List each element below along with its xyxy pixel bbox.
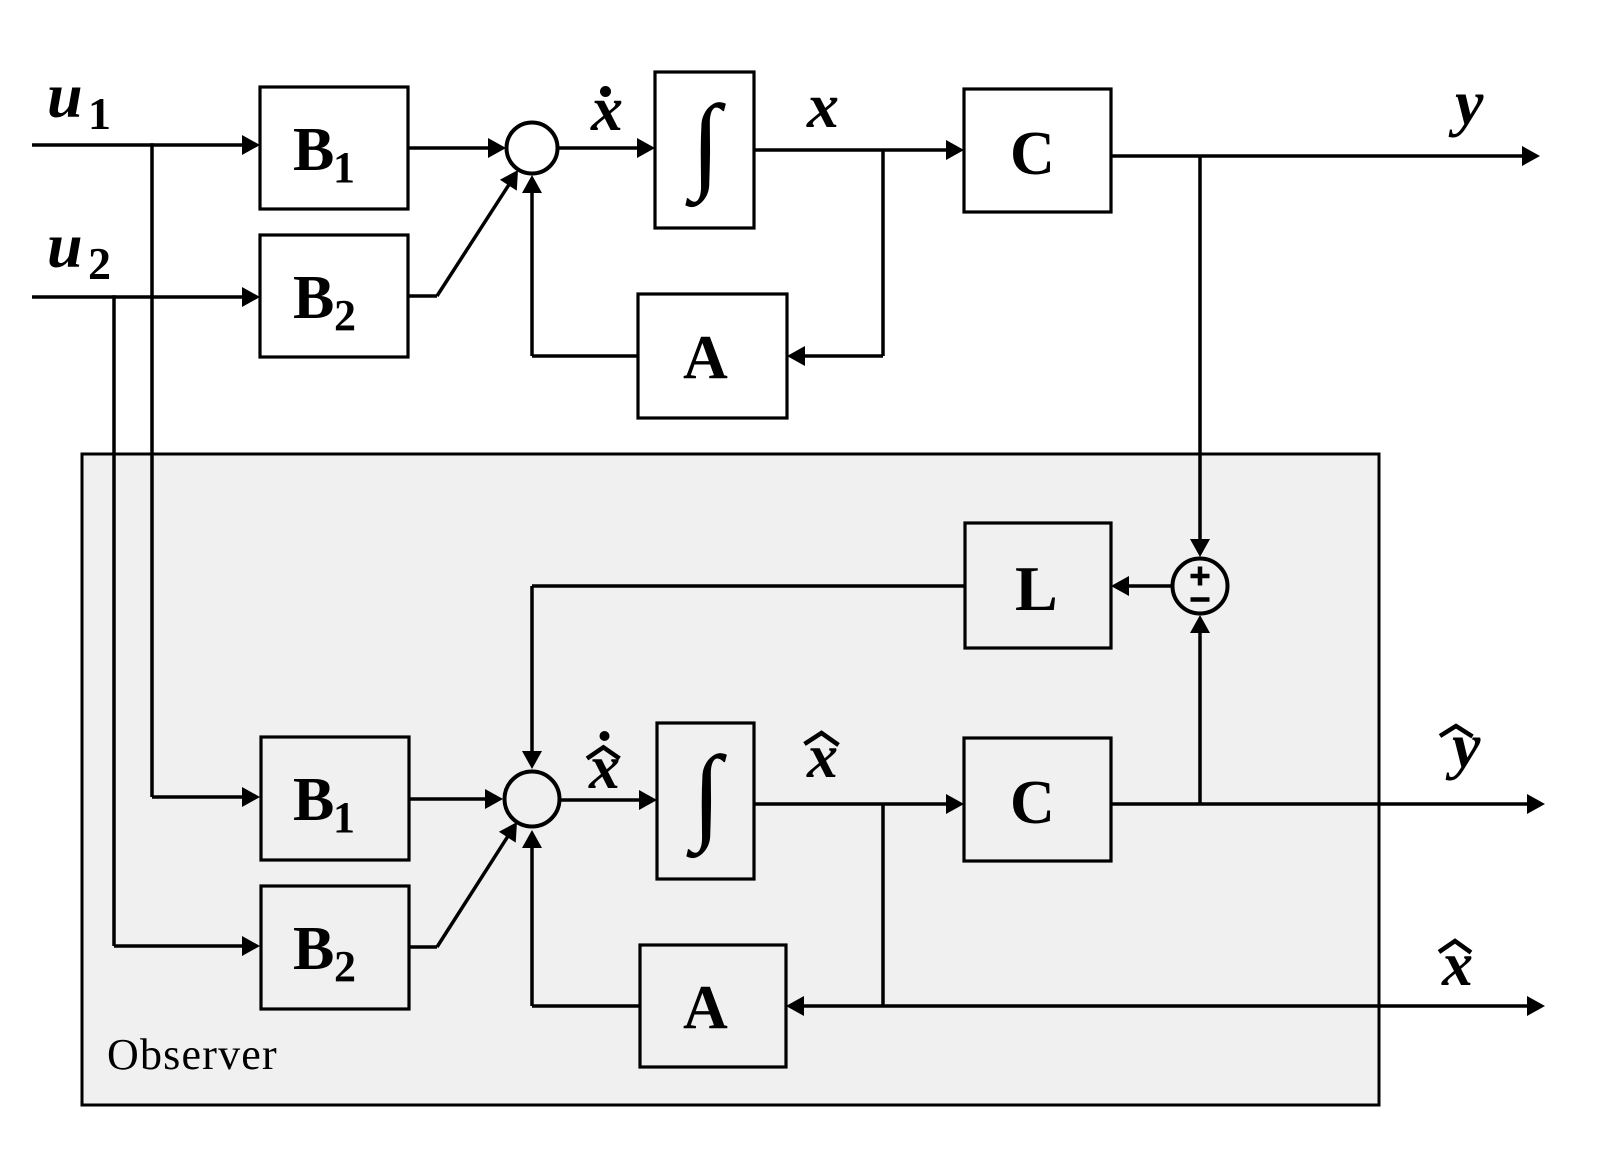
wire y branch down to +- junction [1190, 156, 1210, 557]
wire PM to L [1111, 576, 1171, 596]
svg-text:2: 2 [334, 942, 356, 991]
node u1 label [47, 60, 111, 139]
svg-text:∫: ∫ [686, 736, 727, 859]
svg-text:u: u [47, 210, 83, 281]
integrator block (plant) [655, 72, 754, 228]
svg-text:B: B [293, 116, 334, 184]
wire x branch down to A [787, 150, 883, 366]
svg-text:A: A [683, 974, 728, 1042]
wire y output [1111, 146, 1540, 166]
wire observer A to S2 bottom [522, 830, 640, 1006]
wire x from integrator to C [754, 140, 964, 160]
svg-text:B: B [293, 915, 334, 983]
node xhat output label [1439, 931, 1473, 999]
wire yhat output [1111, 794, 1545, 814]
node yhat label [1440, 710, 1481, 781]
node xhatdot label [587, 731, 620, 802]
wire u1 branch to observer B1 [152, 143, 260, 807]
block B2 [260, 235, 408, 357]
node xdot label [590, 73, 623, 144]
svg-text:y: y [1448, 67, 1484, 138]
block C observer [964, 738, 1111, 861]
svg-text:A: A [683, 324, 728, 392]
block A observer [640, 945, 786, 1067]
svg-text:1: 1 [88, 88, 111, 139]
wire u1 to B1 [32, 135, 260, 155]
wire u2 to B2 [32, 287, 260, 307]
svg-text:1: 1 [333, 143, 355, 192]
svg-text:2: 2 [334, 291, 356, 340]
wire xhat output line [883, 996, 1545, 1016]
observer label text [107, 1030, 278, 1079]
block B1 [260, 87, 408, 209]
svg-text:C: C [1010, 120, 1055, 188]
block B2 observer [261, 886, 409, 1009]
block C (plant) [964, 89, 1111, 212]
wire S2 to observer integrator [560, 790, 657, 810]
node x label [806, 70, 839, 141]
block L [965, 523, 1111, 648]
summing junction S2 [505, 772, 560, 827]
wire xhat into observer A [786, 996, 883, 1016]
wire L to summing junction S2 [522, 586, 965, 769]
svg-text:B: B [293, 264, 334, 332]
svg-text:x: x [806, 70, 839, 141]
summing junction S1 [507, 123, 558, 174]
wire B2 to summing junction S1 [408, 170, 518, 296]
wire observer B2 to S2 [409, 822, 517, 947]
wire S1 to integrator [557, 138, 655, 158]
integrator block (observer) [657, 723, 754, 879]
svg-text:x: x [588, 734, 620, 802]
observer region box [82, 454, 1379, 1105]
svg-text:x: x [590, 73, 623, 144]
summing junction PM (plus-minus) [1173, 559, 1228, 614]
svg-text:y: y [1445, 710, 1481, 781]
svg-text:Observer: Observer [107, 1030, 278, 1079]
wire u2 branch to observer B2 [114, 295, 260, 956]
svg-text:L: L [1015, 553, 1058, 624]
svg-text:C: C [1010, 769, 1055, 837]
block A (plant) [638, 294, 787, 418]
svg-text:2: 2 [88, 238, 111, 289]
wire yhat branch up to PM [1190, 615, 1210, 804]
wire xhat from integrator to observer C [754, 794, 964, 814]
node y label [1448, 67, 1484, 138]
block B1 observer [261, 737, 409, 860]
svg-text:∫: ∫ [685, 85, 726, 208]
svg-text:B: B [293, 766, 334, 834]
svg-text:1: 1 [333, 793, 355, 842]
wire xhat branch down [881, 804, 885, 1006]
svg-text:u: u [47, 60, 83, 131]
wire B1 to summing junction S1 [408, 138, 506, 158]
wire observer B1 to S2 [409, 789, 503, 809]
node xhat label [805, 723, 839, 791]
wire A to S1 bottom [522, 175, 638, 356]
node u2 label [47, 210, 111, 289]
